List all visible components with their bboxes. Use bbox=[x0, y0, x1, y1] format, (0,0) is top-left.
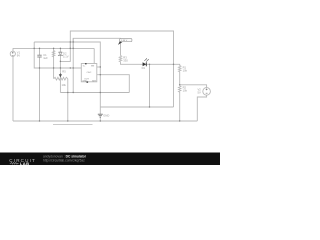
junction (39.5,48.4) bbox=[39, 48, 40, 49]
junction (100.3,121) bbox=[100, 120, 101, 121]
svg-text:10k: 10k bbox=[62, 83, 67, 87]
junction (149.5,64.3) bbox=[149, 64, 150, 65]
wire ic output y=74.6 bbox=[97, 75, 130, 93]
svg-text:5.1V: 5.1V bbox=[63, 55, 69, 59]
junction (100.3,92.5) bbox=[100, 92, 101, 93]
IC U1 box bbox=[81, 64, 97, 82]
svg-text:SET: SET bbox=[92, 80, 97, 82]
resistor R1 bbox=[178, 66, 181, 72]
junction (53.6,48.4) bbox=[53, 48, 54, 49]
junction (67.8,92.5) bbox=[67, 92, 68, 93]
junction (67.8,121) bbox=[67, 120, 68, 121]
wire jog to divider bbox=[174, 64, 180, 65]
footer logo zigzag bbox=[10, 162, 19, 164]
resistor RA bbox=[52, 51, 55, 58]
wire v2 bottom lead bbox=[197, 95, 206, 121]
wire ic top pin bbox=[93, 48, 95, 63]
junction (70.3,48.4) bbox=[70, 48, 71, 49]
junction dots bbox=[33, 41, 180, 121]
junction (100.3,74.7) bbox=[100, 74, 101, 75]
junction (39.5,68) bbox=[39, 67, 40, 68]
IC pin mark bottom bbox=[87, 81, 89, 83]
junction (73.2,42) bbox=[72, 41, 73, 42]
V2 polarity marks bbox=[206, 89, 208, 94]
wire gate y=38.3 bbox=[73, 38, 120, 55]
wire top rail y=31 bbox=[70, 31, 173, 107]
wire pot right lead to bottom rail bbox=[67, 79, 69, 121]
svg-text:R5: R5 bbox=[62, 70, 66, 74]
junction (70.3,68) bbox=[70, 67, 71, 68]
svg-text:1.95 V: 1.95 V bbox=[121, 40, 128, 42]
junction (100.3,67) bbox=[100, 66, 101, 67]
svg-text:9V: 9V bbox=[17, 54, 20, 58]
wire x=73.2 branch bbox=[72, 38, 74, 92]
wire c1 top lead bbox=[39, 48, 41, 55]
svg-text:LAB: LAB bbox=[20, 161, 30, 165]
wire c1 bottom lead bbox=[39, 57, 41, 121]
junction (73.2,68) bbox=[72, 67, 73, 68]
potentiometer wiper arrow bbox=[59, 73, 61, 77]
wire y=61.4 link bbox=[60, 42, 70, 61]
V1 polarity marks bbox=[12, 52, 14, 55]
junction (179.7,121) bbox=[179, 120, 180, 121]
wire between divider resistors bbox=[179, 72, 181, 86]
capacitor C1 bbox=[37, 55, 41, 57]
footer bar bbox=[0, 153, 220, 166]
junction (179.7,84.8) bbox=[179, 84, 180, 85]
wire bottom rail y=121 bbox=[13, 120, 197, 122]
annotation underline bbox=[53, 123, 93, 125]
junction (70.3,42) bbox=[70, 41, 71, 42]
junction (60.4,68) bbox=[60, 67, 61, 68]
wire v1 top lead bbox=[12, 48, 14, 51]
wire d-b branch x=60.4 bbox=[59, 48, 61, 92]
wire led cathode drop bbox=[149, 64, 151, 107]
junction (53.6,68) bbox=[53, 67, 54, 68]
junction (73.2,48.4) bbox=[72, 48, 73, 49]
LED D1 bbox=[143, 62, 147, 66]
voltage source V2 bbox=[203, 88, 211, 96]
wire v1 bottom lead bbox=[12, 56, 14, 121]
resistor R2 bbox=[178, 86, 181, 92]
svg-text:1uF: 1uF bbox=[43, 56, 48, 60]
svg-text:EN: EN bbox=[91, 66, 94, 68]
IC pin mark top bbox=[85, 63, 87, 64]
svg-text:OSC: OSC bbox=[87, 72, 92, 74]
junction (173.5,64.3) bbox=[173, 64, 174, 65]
wire rail y=107 bbox=[100, 106, 173, 108]
svg-text:GND: GND bbox=[82, 80, 87, 82]
wire feedback y=92.5 bbox=[60, 92, 129, 94]
resistor R3 bbox=[119, 56, 122, 63]
annotation pointer bbox=[118, 41, 122, 45]
svg-text:http://circuitlab.com/c/kqr5az: http://circuitlab.com/c/kqr5az bbox=[43, 158, 85, 162]
svg-text:5V: 5V bbox=[198, 91, 201, 95]
junction (60.4,61.4) bbox=[60, 61, 61, 62]
wire r-a branch x=53.6 bbox=[53, 48, 55, 78]
annotation flag bbox=[120, 39, 132, 42]
svg-text:10k: 10k bbox=[183, 68, 188, 72]
svg-text:330: 330 bbox=[123, 58, 128, 62]
junction (39.5,121) bbox=[39, 120, 40, 121]
LED arrows bbox=[144, 58, 148, 61]
svg-text:GND: GND bbox=[103, 114, 109, 118]
ground bbox=[98, 114, 103, 117]
voltage source V1 bbox=[10, 51, 15, 56]
wire supply rail y=48 bbox=[13, 47, 94, 49]
junction (149.5,107) bbox=[149, 106, 150, 107]
wire x=34.2 branch bbox=[34, 42, 81, 68]
junction (60.4,48.4) bbox=[60, 48, 61, 49]
wire divider bottom bbox=[179, 92, 181, 121]
zener D2 bbox=[58, 52, 63, 56]
wire y=42 to ground column bbox=[34, 42, 100, 114]
wire ground to rail bbox=[99, 117, 101, 121]
svg-text:D1: D1 bbox=[142, 66, 146, 70]
potentiometer R5 bbox=[54, 77, 68, 80]
wire v2 top branch y=84.8 bbox=[180, 85, 207, 88]
svg-text:10k: 10k bbox=[183, 89, 188, 93]
junction (34.2,48.4) bbox=[33, 48, 34, 49]
junction (73.2,92.5) bbox=[72, 92, 73, 93]
wire r3 bottom to led bbox=[121, 63, 174, 65]
wire ic right upper pin stub bbox=[97, 66, 101, 68]
